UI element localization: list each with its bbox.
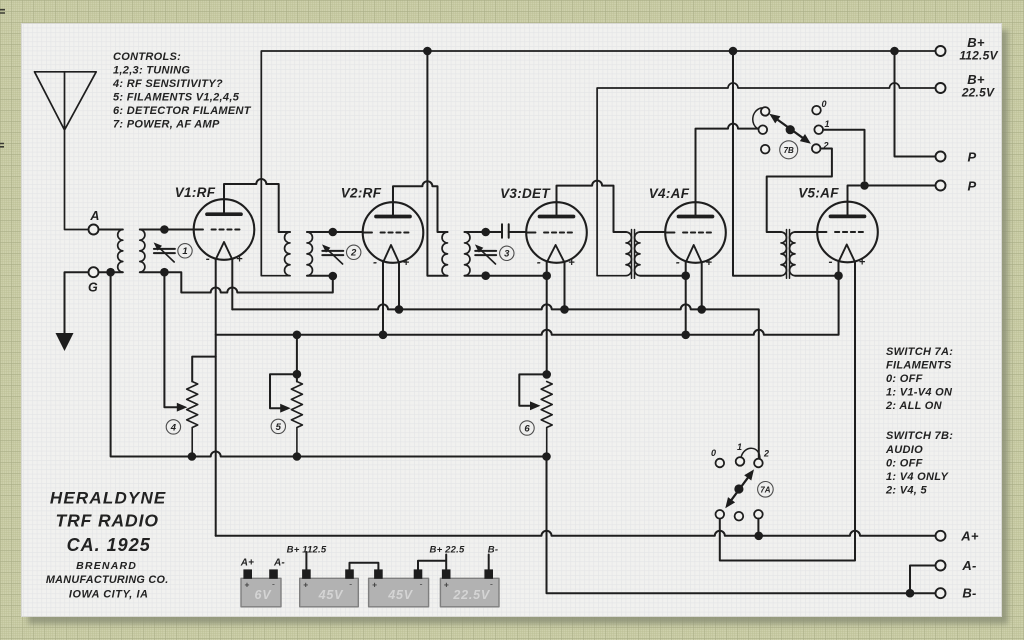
rheostat R6: [541, 382, 552, 457]
rheostat R4: [187, 382, 198, 457]
rheostat R5: [291, 382, 302, 457]
switch 7B contact 1: [814, 125, 823, 134]
switch 7A contact bottom-right: [754, 510, 763, 519]
svg-text:-: -: [349, 579, 352, 589]
svg-text:FILAMENTS: FILAMENTS: [886, 360, 952, 372]
wire A- bus to B- terminal: [547, 457, 936, 594]
wire battery B+112.5 stub: [305, 552, 307, 569]
svg-text:1: V1-V4 ON: 1: V1-V4 ON: [886, 387, 953, 399]
svg-text:B+ 112.5: B+ 112.5: [287, 545, 327, 556]
switch 7A arrow: [725, 469, 754, 508]
wire R6 wiper loop: [519, 374, 546, 405]
switch 7A contact bottom-middle: [735, 512, 744, 521]
svg-text:0: OFF: 0: OFF: [886, 458, 923, 470]
transformer T4 secondary: [635, 232, 640, 276]
switch 7B contact bottom-left: [761, 145, 770, 154]
label control 4: [166, 420, 180, 434]
svg-text:2: 2: [763, 449, 770, 459]
svg-text:-: -: [206, 252, 210, 266]
terminal P upper: [936, 152, 946, 162]
wire B+ to phones P upper: [895, 51, 936, 157]
wire grid capacitor to V3 grid: [509, 231, 527, 233]
svg-text:SWITCH 7B:: SWITCH 7B:: [886, 430, 953, 442]
svg-text:7B: 7B: [784, 146, 794, 155]
svg-text:+: +: [444, 580, 449, 590]
svg-text:7A: 7A: [760, 486, 770, 495]
node C1 top: [160, 225, 169, 234]
svg-text:IOWA CITY, IA: IOWA CITY, IA: [69, 589, 149, 601]
svg-text:V4:AF: V4:AF: [649, 186, 690, 201]
svg-text:5: 5: [276, 422, 282, 433]
junction V3 plus on bus: [560, 305, 569, 314]
svg-text:+: +: [705, 257, 712, 269]
svg-text:P: P: [968, 179, 977, 194]
wire A to T1 primary top: [99, 229, 123, 231]
svg-text:-: -: [537, 255, 541, 269]
wire T4 secondary bottom: [640, 275, 686, 277]
svg-text:V1:RF: V1:RF: [175, 185, 216, 200]
svg-text:45V: 45V: [318, 588, 345, 602]
svg-text:-: -: [420, 579, 423, 589]
wire T3 secondary to grid capacitor: [465, 231, 503, 233]
svg-text:6: 6: [524, 423, 530, 434]
svg-text:0: OFF: 0: OFF: [886, 373, 923, 385]
wire V1 plate to T2 primary: [224, 179, 290, 232]
svg-text:22.5V: 22.5V: [452, 588, 491, 602]
svg-text:3: 3: [504, 249, 510, 260]
svg-text:B+ 22.5: B+ 22.5: [430, 545, 465, 556]
svg-text:CONTROLS:: CONTROLS:: [113, 51, 181, 63]
svg-text:+: +: [303, 580, 308, 590]
svg-text:V2:RF: V2:RF: [341, 186, 382, 201]
wire T4 primary bottom to B+22.5 bus: [597, 83, 935, 276]
junction V4 minus on bus: [681, 331, 690, 340]
wire G to ground: [65, 272, 89, 333]
wire T3 secondary bottom to V3 filament: [465, 275, 547, 277]
svg-text:0: 0: [822, 99, 828, 109]
wire V5 filament minus: [838, 262, 840, 275]
label control 6: [520, 421, 534, 435]
wire minus bus tap to R5: [296, 335, 298, 382]
svg-text:P: P: [968, 150, 977, 165]
wire battery jumper 45V-22.5V: [418, 555, 446, 570]
variable capacitor C1: [154, 242, 175, 262]
svg-text:6: DETECTOR FILAMENT: 6: DETECTOR FILAMENT: [113, 105, 252, 117]
svg-text:-: -: [829, 255, 833, 269]
wire R5 wiper loop: [270, 374, 297, 408]
switch 7A contact 1: [736, 457, 745, 466]
svg-text:0: 0: [711, 448, 717, 458]
switch 7B contact 0: [812, 106, 821, 115]
arrowhead R4 wiper: [177, 403, 188, 412]
svg-text:+: +: [236, 254, 243, 266]
wire A- terminal tap: [910, 566, 936, 594]
junction B+ bus to P: [890, 47, 899, 56]
svg-text:+: +: [245, 580, 250, 590]
wire 7A contact 2 bottom to A+ bus: [757, 519, 759, 532]
wire filament plus bus to switch 7A: [232, 304, 759, 458]
svg-text:2: V4, 5: 2: V4, 5: [885, 485, 928, 497]
svg-text:-: -: [490, 579, 493, 589]
transformer T2 secondary: [307, 232, 312, 276]
svg-text:-: -: [272, 579, 275, 589]
wire V3 filament minus to R6: [546, 263, 548, 375]
svg-text:4: 4: [170, 422, 177, 433]
svg-text:A+: A+: [240, 558, 254, 569]
battery C 22.5V: [440, 569, 499, 606]
wire V3 plate to T4 primary: [557, 181, 627, 232]
switch 7A contact 0: [716, 459, 725, 468]
wire T5 secondary to V5 grid: [795, 231, 817, 233]
wire V1 filament minus (long vertical): [215, 260, 217, 536]
svg-text:HERALDYNE: HERALDYNE: [50, 489, 167, 508]
battery B2 45V: [369, 569, 429, 606]
transformer T5 secondary: [790, 232, 795, 276]
switch 7A rotor: [734, 484, 743, 493]
arrowhead R6 wiper: [530, 401, 541, 410]
transformer T4 primary: [626, 232, 631, 276]
svg-text:+: +: [372, 580, 377, 590]
terminal A+: [936, 531, 946, 541]
svg-text:G: G: [88, 281, 98, 295]
svg-text:B-: B-: [962, 586, 976, 601]
transformer T5 primary: [781, 232, 786, 276]
wire V5 plate to phones node: [848, 186, 860, 215]
svg-text:A+: A+: [960, 529, 979, 544]
svg-text:22.5V: 22.5V: [961, 86, 995, 100]
svg-text:+: +: [403, 257, 410, 269]
label switch 7A: [758, 482, 774, 498]
junction T4 bottom to V4 filament: [681, 271, 690, 280]
wire T1 secondary bottom / grid return bus: [140, 272, 333, 292]
svg-text:MANUFACTURING CO.: MANUFACTURING CO.: [46, 574, 169, 586]
wire V4 plate to switch 7B: [696, 124, 759, 215]
junction V2 minus on bus: [379, 331, 388, 340]
terminal B+22.5V: [936, 83, 946, 93]
antenna: [35, 72, 97, 230]
switch 7B link arc: [753, 108, 762, 129]
junction R5 tap on minus bus: [293, 331, 302, 340]
junction G node: [106, 268, 115, 277]
svg-text:2: ALL ON: 2: ALL ON: [885, 400, 943, 412]
label control 5: [271, 419, 285, 433]
wire V4 filament minus: [685, 263, 687, 335]
transformer T1 secondary: [140, 230, 145, 273]
junction V2 plus on bus: [395, 305, 404, 314]
junction A- tap: [906, 589, 915, 598]
terminal B-: [936, 588, 946, 598]
wire C1 bottom to R4 wiper: [164, 272, 179, 407]
junction R5 bottom on A- bus: [293, 452, 302, 461]
svg-text:V3:DET: V3:DET: [500, 186, 551, 201]
grid capacitor: [502, 224, 509, 237]
wire phones P lower: [865, 185, 936, 187]
wire B+ to T5 primary bottom: [733, 51, 781, 276]
switch 7B contact 2: [812, 144, 821, 153]
svg-text:2: 2: [350, 248, 357, 259]
svg-text:SWITCH 7A:: SWITCH 7A:: [886, 346, 953, 358]
svg-text:1: 1: [182, 246, 187, 257]
transformer T4 core: [632, 230, 635, 279]
svg-text:-: -: [373, 255, 377, 269]
wire V2 filament plus: [398, 263, 400, 310]
variable capacitor C3: [475, 244, 496, 264]
transformer T3 primary: [442, 232, 447, 276]
svg-text:7: POWER, AF AMP: 7: POWER, AF AMP: [113, 119, 220, 131]
wire battery B- stub: [488, 555, 490, 570]
node C1 bottom: [160, 268, 169, 277]
wire A+ bus: [216, 531, 936, 536]
wire V1 filament plus: [231, 260, 233, 310]
junction grid return to V3 filament: [542, 271, 551, 280]
svg-text:V5:AF: V5:AF: [798, 186, 839, 201]
svg-text:A-: A-: [273, 558, 285, 569]
junction B+ bus to T5: [729, 47, 738, 56]
wire B+112.5 bus and T2 primary feed: [261, 51, 935, 276]
svg-text:TRF RADIO: TRF RADIO: [56, 511, 159, 531]
wire T2 secondary bottom: [307, 275, 333, 277]
switch 7B contact common: [759, 125, 768, 134]
svg-text:1: 1: [737, 442, 743, 452]
label control 1: [178, 244, 192, 258]
battery A 6V: [241, 569, 281, 606]
wire T2 secondary to V2 grid: [307, 231, 363, 233]
wire V2 filament minus: [382, 263, 384, 336]
junction V5 plate node: [860, 181, 869, 190]
wire B+ to T3 primary bottom: [427, 51, 447, 276]
vacuum tube V3: [526, 202, 587, 263]
svg-text:6V: 6V: [255, 588, 273, 602]
vacuum tube V5: [817, 202, 878, 263]
battery B1 45V: [300, 569, 359, 606]
junction R5 top: [293, 370, 302, 379]
arrowhead R5 wiper: [280, 404, 291, 413]
wire T5 secondary bottom: [795, 275, 839, 277]
wire tap to R4 top: [192, 357, 216, 382]
transformer T2 primary: [285, 232, 290, 276]
terminal P lower: [936, 181, 946, 191]
terminal G: [89, 267, 99, 277]
wire filament minus bus: [216, 276, 839, 335]
svg-text:BRENARD: BRENARD: [76, 560, 137, 572]
svg-text:1: 1: [825, 119, 831, 129]
svg-text:CA. 1925: CA. 1925: [67, 535, 151, 555]
wire battery jumper 45V-45V: [350, 563, 379, 570]
svg-text:-: -: [676, 255, 680, 269]
wire V5 filament plus to switch 7A: [720, 262, 855, 560]
junction R4 bottom on A- bus: [188, 452, 197, 461]
switch 7B contact top-left: [761, 107, 770, 116]
svg-text:B-: B-: [488, 545, 498, 556]
junction B+ bus to T3: [423, 47, 432, 56]
junction T5 bottom to V5 filament: [834, 271, 843, 280]
junction V4 plus on bus: [697, 305, 706, 314]
vacuum tube V4: [665, 202, 726, 263]
svg-text:1,2,3: TUNING: 1,2,3: TUNING: [113, 65, 190, 77]
label control 3: [500, 246, 514, 260]
wire T1 secondary to V1 grid: [140, 229, 194, 231]
junction 7A to A+ bus: [754, 532, 763, 541]
vacuum tube V2: [363, 202, 424, 263]
svg-text:112.5V: 112.5V: [959, 49, 998, 63]
svg-text:A-: A-: [961, 558, 976, 573]
terminal A-: [936, 561, 946, 571]
node C2 top: [329, 228, 338, 237]
junction R6 top: [542, 370, 551, 379]
svg-text:A: A: [89, 209, 99, 223]
svg-text:5: FILAMENTS V1,2,4,5: 5: FILAMENTS V1,2,4,5: [113, 92, 240, 104]
switch 7B arrow: [769, 114, 811, 144]
wire G to T1 primary bottom: [99, 271, 123, 273]
switch 7A contact bottom-left: [716, 510, 725, 519]
svg-text:1: V4 ONLY: 1: V4 ONLY: [886, 471, 949, 483]
node C2 bottom: [329, 272, 338, 281]
wire T4 secondary to V4 grid: [640, 231, 665, 233]
transformer T1 primary: [118, 230, 123, 273]
variable capacitor C2: [322, 244, 343, 264]
svg-text:+: +: [859, 257, 866, 269]
wire V4 filament plus: [701, 263, 703, 310]
label control 2: [347, 245, 361, 259]
terminal A: [89, 225, 99, 235]
svg-text:4: RF SENSITIVITY?: 4: RF SENSITIVITY?: [112, 78, 223, 90]
switch 7A contact 2: [754, 459, 763, 468]
junction R6 bottom on A- bus: [542, 452, 551, 461]
transformer T5 core: [787, 230, 790, 279]
wire 7B contact 2 to T5 primary: [767, 149, 832, 233]
node C3 bottom: [481, 271, 490, 280]
ground: [56, 333, 74, 351]
switch 7B rotor: [786, 125, 795, 134]
terminal B+112.5V: [936, 46, 946, 56]
wire 7B contact 1 to phones: [823, 130, 865, 181]
label switch 7B: [780, 141, 798, 159]
wire V3 filament plus: [564, 263, 566, 310]
switch 7A link arc: [741, 448, 760, 459]
svg-text:AUDIO: AUDIO: [885, 444, 923, 456]
svg-text:45V: 45V: [387, 588, 414, 602]
wire V2 plate to T3 primary: [393, 181, 448, 232]
vacuum tube V1: [194, 199, 255, 260]
svg-text:+: +: [568, 257, 575, 269]
transformer T3 secondary: [465, 232, 470, 276]
node C3 top: [481, 228, 490, 237]
wire G node to A- return bus: [111, 272, 547, 456]
